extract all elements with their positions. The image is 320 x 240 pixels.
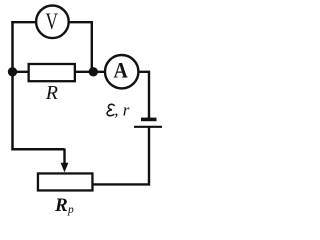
svg-text:, r: , r (114, 100, 130, 119)
node A junction dot (8, 67, 17, 76)
resistor R box (29, 64, 75, 81)
battery B1 long thin plate (134, 126, 162, 128)
battery B1 short thick plate (141, 118, 157, 122)
ammeter U2 circle (105, 55, 138, 88)
node B junction dot (89, 67, 98, 76)
svg-text:R: R (45, 82, 58, 104)
wire: voltmeter right lead down to node B (69, 22, 92, 72)
wire: left vertical branch with bottom run toward rheostat (13, 21, 65, 149)
svg-text:A: A (113, 57, 127, 82)
svg-text:V: V (45, 10, 58, 35)
wire: rheostat slider stem (63, 149, 65, 166)
wire: ammeter to battery top plate (139, 72, 150, 119)
voltmeter U1 circle (36, 6, 69, 39)
svg-text:R: R (54, 195, 68, 216)
wire: node A to resistor left lead (13, 71, 30, 73)
wire: battery bottom plate down and left to rheostat (93, 127, 150, 184)
svg-text:p: p (67, 204, 74, 216)
wire: top lead from left branch to voltmeter (11, 21, 36, 23)
rheostat Rp box (38, 173, 92, 190)
arrowhead of rheostat slider (61, 163, 69, 173)
label EMF script E (107, 104, 114, 115)
wire: resistor right lead through node B to ammeter (75, 71, 105, 73)
